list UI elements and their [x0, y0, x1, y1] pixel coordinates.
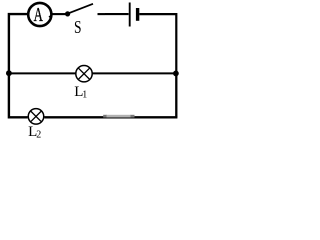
wire top-left corner to ammeter	[9, 14, 28, 73]
lamp L2	[28, 109, 44, 125]
wire battery to top-right corner	[139, 14, 176, 73]
label L1	[74, 84, 87, 100]
wire middle row left of L1	[9, 72, 77, 74]
svg-text:1: 1	[82, 89, 87, 100]
wire switch to battery	[105, 13, 129, 15]
wire middle row right of L1	[92, 72, 177, 74]
battery cell	[130, 3, 138, 27]
ammeter A1	[28, 3, 51, 26]
switch S	[65, 4, 105, 17]
svg-text:S: S	[74, 18, 82, 37]
lamp L1	[76, 66, 92, 82]
wire right vertical lower segment	[176, 73, 177, 117]
wire gray segment on bottom row	[103, 115, 134, 118]
node right junction	[173, 71, 179, 77]
node left junction	[6, 70, 12, 76]
wire ammeter to switch	[52, 13, 66, 15]
svg-text:2: 2	[36, 130, 41, 138]
label L2	[28, 124, 41, 141]
svg-text:A: A	[34, 3, 43, 25]
wire bottom row right of L2	[44, 116, 177, 118]
wire left vertical lower segment	[9, 73, 28, 117]
